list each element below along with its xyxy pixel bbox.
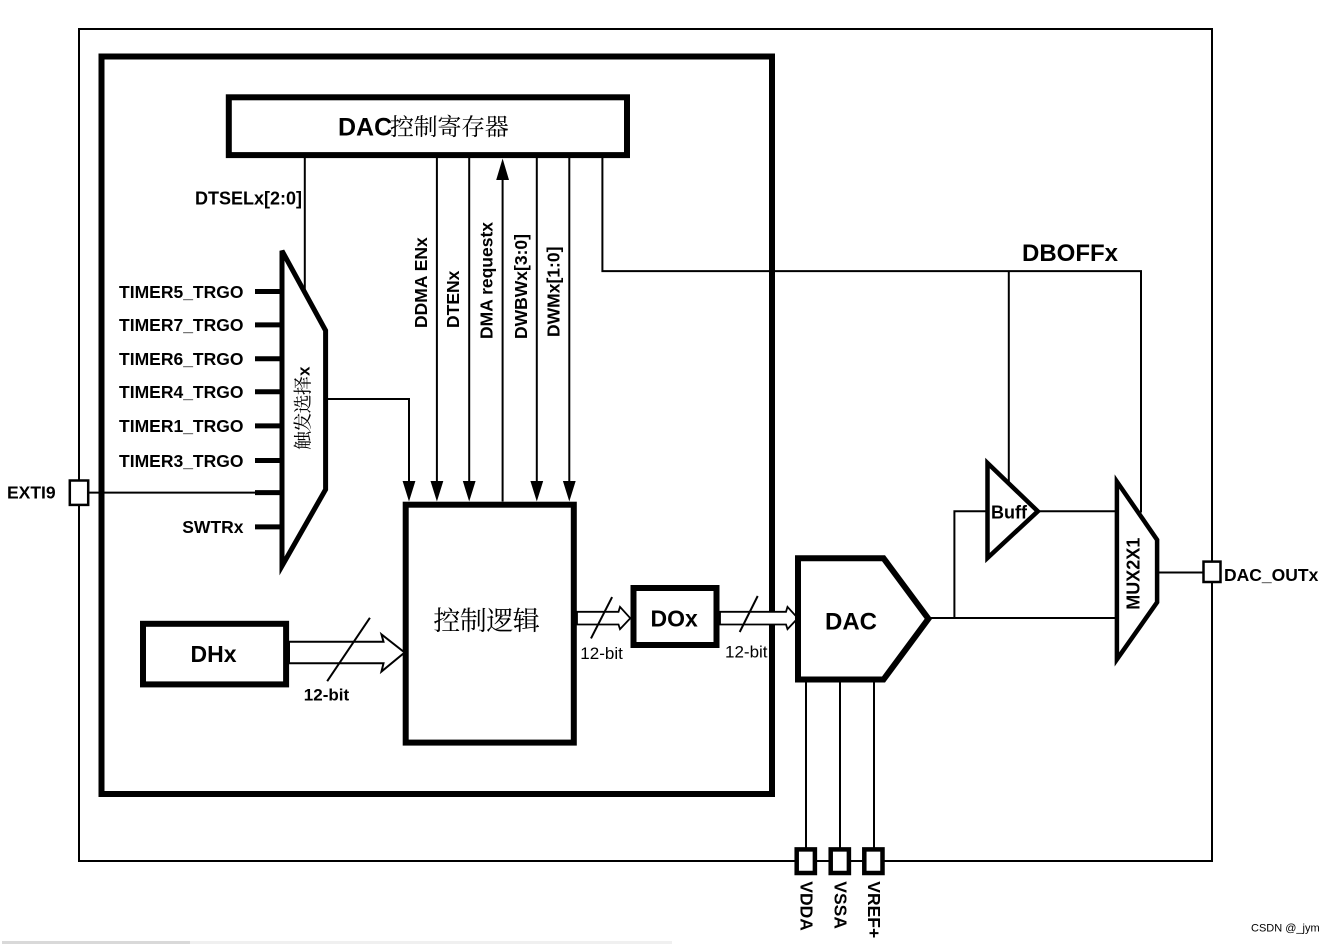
pin square VDDA: [797, 849, 815, 873]
label DWMx[1:0]: [543, 247, 563, 337]
svg-text:TIMER7_TRGO: TIMER7_TRGO: [119, 315, 243, 335]
label VDDA (vertical): [797, 881, 817, 931]
svg-text:12-bit: 12-bit: [725, 643, 768, 662]
svg-text:DAC: DAC: [825, 609, 877, 636]
svg-text:DOx: DOx: [651, 606, 699, 632]
pin square VSSA: [831, 849, 849, 873]
pin square VREF+: [864, 849, 882, 873]
svg-text:x: x: [295, 366, 314, 376]
bus arrow DHx to control logic (12-bit): [289, 634, 405, 671]
input stub TIMER7_TRGO: [255, 322, 284, 327]
label DWBWx[3:0]: [511, 234, 531, 339]
svg-text:12-bit: 12-bit: [304, 686, 350, 705]
wire EXTI9 to trigger selector: [88, 492, 284, 494]
label MUX2X1 (vertical): [1124, 538, 1144, 610]
trigger selector MUX (trapezoid): [282, 251, 326, 566]
label DMA requestx: [477, 222, 497, 339]
svg-text:TIMER1_TRGO: TIMER1_TRGO: [119, 416, 243, 436]
wire DTENx: [468, 157, 470, 483]
svg-text:DTENx: DTENx: [443, 270, 463, 328]
wire DWBWx[3:0]: [536, 157, 538, 483]
input stub TIMER3_TRGO: [255, 458, 284, 463]
svg-text:TIMER5_TRGO: TIMER5_TRGO: [119, 282, 243, 302]
svg-text:DBOFFx: DBOFFx: [1022, 240, 1119, 267]
bus slash: [591, 597, 612, 638]
buffer amplifier Buff (triangle): [988, 463, 1038, 558]
svg-text:DAC_OUTx: DAC_OUTx: [1224, 565, 1319, 585]
svg-text:DWMx[1:0]: DWMx[1:0]: [543, 247, 563, 337]
register DOx box: [634, 588, 717, 645]
input stub TIMER1_TRGO: [255, 423, 284, 428]
EXTI9 input stub: [255, 490, 284, 495]
svg-text:12-bit: 12-bit: [580, 644, 623, 663]
pin square EXTI9: [70, 481, 88, 505]
svg-text:TIMER3_TRGO: TIMER3_TRGO: [119, 451, 243, 471]
svg-text:DAC: DAC: [338, 114, 392, 142]
inner DAC block boundary: [102, 57, 773, 795]
wire DWMx[1:0]: [568, 157, 570, 483]
svg-text:VDDA: VDDA: [797, 881, 817, 931]
svg-text:DHx: DHx: [191, 641, 237, 667]
svg-text:DDMA ENx: DDMA ENx: [411, 237, 431, 328]
wire trigger selector output to control logic: [326, 399, 409, 483]
svg-text:TIMER6_TRGO: TIMER6_TRGO: [119, 349, 243, 369]
bus arrow control logic to DOx (12-bit): [577, 607, 630, 629]
label 触发选择x (vertical): [293, 377, 311, 450]
bottom scrollbar remnant: [2, 941, 190, 944]
svg-text:DTSELx[2:0]: DTSELx[2:0]: [195, 189, 302, 209]
wire branch to Buff input: [954, 511, 987, 618]
wire MUX2X1 output to DAC_OUTx pin: [1157, 572, 1203, 574]
input stub SWTRx: [255, 524, 284, 529]
pin square DAC_OUTx: [1204, 562, 1221, 582]
wire DAC to VREF+ pad: [873, 680, 875, 851]
label VSSA (vertical): [831, 881, 851, 929]
svg-text:VREF+: VREF+: [864, 881, 884, 938]
wire DAC to VDDA pad: [805, 680, 807, 851]
svg-text:TIMER4_TRGO: TIMER4_TRGO: [119, 382, 243, 402]
svg-text:EXTI9: EXTI9: [7, 483, 56, 503]
wire DTSELx[2:0] from register to trigger selector: [304, 157, 306, 292]
svg-text:DMA requestx: DMA requestx: [477, 222, 497, 339]
bus slash: [327, 618, 370, 681]
input stub TIMER6_TRGO: [255, 356, 284, 361]
wire DBOFFx from register to MUX select: [602, 157, 1141, 513]
input stub TIMER4_TRGO: [255, 389, 284, 394]
output multiplexer MUX2X1 (trapezoid): [1117, 482, 1157, 660]
wire DMA requestx: [502, 179, 504, 502]
register box U1: DAC control register: [229, 97, 627, 155]
wire DBOFFx branch to Buff enable: [1008, 271, 1010, 484]
label 控制逻辑: [434, 607, 459, 632]
svg-text:Buff: Buff: [991, 503, 1028, 523]
label DDMA ENx: [411, 237, 431, 328]
input stub TIMER5_TRGO: [255, 289, 284, 294]
label DTENx: [443, 270, 463, 328]
wire DAC to VSSA pad: [839, 680, 841, 851]
svg-text:DWBWx[3:0]: DWBWx[3:0]: [511, 234, 531, 339]
control logic box: [406, 505, 574, 743]
label VREF+ (vertical): [864, 881, 884, 938]
register DHx box: [143, 624, 286, 685]
DAC converter block (pentagon): [798, 558, 928, 679]
svg-text:SWTRx: SWTRx: [182, 517, 244, 537]
outer boundary: [79, 29, 1212, 861]
wire DDMA ENx: [436, 157, 438, 483]
svg-text:CSDN @_jym: CSDN @_jym: [1251, 923, 1320, 935]
svg-text:VSSA: VSSA: [831, 881, 851, 929]
wire DAC output to MUX2X1 lower input: [928, 617, 1117, 619]
bus arrow DOx to DAC (12-bit): [720, 607, 798, 629]
svg-text:MUX2X1: MUX2X1: [1124, 538, 1144, 610]
bus slash: [740, 596, 758, 632]
wire Buff output to MUX2X1 upper input: [1038, 510, 1117, 512]
